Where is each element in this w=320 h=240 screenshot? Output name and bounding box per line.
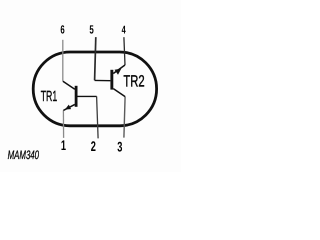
TR2 collector wire	[113, 89, 125, 97]
svg-text:3: 3	[117, 138, 122, 154]
svg-text:4: 4	[122, 25, 127, 37]
pin 5 lead	[95, 37, 96, 80]
pin 1 lead	[62, 110, 64, 137]
TR1 base bar	[75, 86, 78, 107]
svg-text:5: 5	[89, 23, 94, 37]
pin 2 lead	[97, 96, 99, 138]
TR1 collector wire	[63, 81, 75, 89]
svg-text:MAM340: MAM340	[8, 148, 40, 162]
transistor TR2	[95, 65, 126, 97]
svg-text:TR1: TR1	[41, 89, 57, 105]
pin 6 lead	[62, 40, 64, 81]
TR1 emitter arrow	[65, 105, 71, 110]
svg-text:1: 1	[61, 137, 66, 153]
TR1 base wire	[78, 95, 97, 97]
TR2 emitter wire	[113, 65, 125, 74]
pin 3 lead	[124, 97, 125, 138]
TR2 emitter arrow	[115, 69, 122, 75]
package outline (oval envelope)	[33, 52, 156, 126]
svg-text:2: 2	[91, 138, 96, 154]
transistor TR1	[63, 81, 97, 110]
svg-text:TR2: TR2	[123, 73, 144, 91]
TR2 base wire	[95, 79, 111, 81]
svg-text:6: 6	[60, 23, 65, 37]
TR1 emitter wire	[63, 104, 74, 110]
pin 4 lead	[124, 37, 125, 65]
TR2 base bar	[110, 70, 113, 90]
